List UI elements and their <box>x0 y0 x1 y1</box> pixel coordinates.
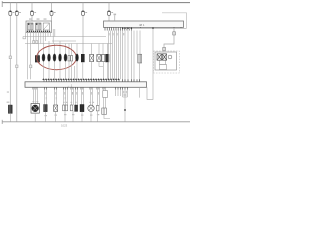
fuse F1 <box>9 3 15 16</box>
relay box pins <box>27 31 50 32</box>
connector P6 <box>102 108 107 114</box>
wire stub x139 below ECU B <box>139 87 141 97</box>
sensor S4 <box>102 55 105 62</box>
harness ECU B to bottom components <box>34 90 106 109</box>
relay K3 <box>43 23 49 30</box>
connector C1 (left) <box>7 102 13 114</box>
ignition coil N2 <box>48 54 51 62</box>
wire code labels on ECU A harness <box>109 33 125 35</box>
wire F4 to relay box <box>51 15 53 21</box>
ignition coil N3 <box>53 54 56 62</box>
fuse F4 <box>50 3 56 16</box>
connector P2 <box>71 56 73 62</box>
inline connector on left sensor wire <box>30 65 32 68</box>
sensor S1 (dark) <box>81 54 84 62</box>
ECU A pin stub label <box>114 14 117 21</box>
connector P5 <box>96 106 99 111</box>
extra wire code labels lower <box>7 92 66 100</box>
sensor S5 (dark) <box>106 54 109 62</box>
ECU B top pins <box>44 79 140 82</box>
wire relay box right pin a <box>52 29 54 44</box>
idle actuator (circle) <box>168 55 172 59</box>
wire relay box right pin b <box>54 29 56 37</box>
throttle motor M1 (X symbol) <box>157 54 162 60</box>
wires relay pins to buses <box>28 33 51 80</box>
wire M2 to ground bus <box>34 113 36 122</box>
inline connector on throttle wire upper <box>173 32 176 35</box>
inline connector on F2 wire <box>16 65 18 68</box>
top supply bus line <box>2 2 190 4</box>
inline connector on throttle wire lower <box>163 47 166 50</box>
bus wire y43 <box>25 43 112 45</box>
inline connector on relay wire b <box>36 41 38 44</box>
wire drops to coil row <box>44 41 108 56</box>
relay module under ECU B <box>103 91 108 98</box>
ignition coil N6 <box>76 54 79 62</box>
sensor S8 (dark) <box>80 105 84 112</box>
ECU B (injection control unit) <box>25 82 147 88</box>
left border bottom tick <box>1 120 3 124</box>
wire F1 to connector C1 <box>9 15 11 105</box>
left border tick <box>1 1 3 7</box>
ground drop right <box>116 90 128 122</box>
lambda sensor S2 <box>90 55 94 62</box>
bus wire y36 <box>23 36 106 38</box>
ignition coil N1 <box>42 54 45 62</box>
bus wire y41 <box>52 40 76 42</box>
svg-text:1023: 1023 <box>61 124 68 128</box>
ignition coil N5 <box>64 54 67 62</box>
inline connector on relay wire a <box>33 41 35 44</box>
right return wire <box>122 27 187 29</box>
fuse F5 <box>82 3 88 16</box>
wire S6 to ECU B <box>139 63 141 82</box>
sensor S7 <box>54 105 58 111</box>
inner sub-module <box>160 60 167 69</box>
relay K1 <box>28 23 33 30</box>
junction dots on return wire <box>122 28 154 30</box>
top-right feed wire <box>162 13 187 28</box>
ECU A bottom pins <box>105 27 181 30</box>
wire F3 to relay box <box>31 15 33 21</box>
svg-text:→ 1: → 1 <box>67 83 73 87</box>
wire F5 to sensor row <box>82 15 84 54</box>
relay box K <box>26 18 52 32</box>
fuse F6 <box>108 3 114 16</box>
ECU B bottom pins <box>33 87 127 89</box>
component id labels bottom row <box>45 114 100 116</box>
wire C1 to ground bus <box>9 113 11 121</box>
pin number specks above bottom row <box>33 101 95 103</box>
sensor S6 (striped) <box>138 54 142 63</box>
fuel pump M2 <box>31 104 39 114</box>
wire relay pin 1 down-left <box>23 33 26 39</box>
lambda sensor S3 <box>97 55 101 62</box>
wire F6 to ECU A <box>108 15 110 21</box>
ground bus line <box>2 121 190 123</box>
wires coil row to junction bus <box>44 61 108 79</box>
connector P1 <box>68 56 70 62</box>
highlight ellipse (red) <box>37 45 77 69</box>
wire code labels below ECU B <box>45 91 127 96</box>
sensor S0 (dark) <box>35 56 39 63</box>
wire F2 to ground bus <box>16 15 18 121</box>
relay K2 <box>36 23 41 30</box>
wire loop right of ECU B <box>147 28 153 99</box>
ECU A harness wires down <box>109 31 141 82</box>
throttle assembly M (outer dashed housing) <box>154 51 180 73</box>
inline connector on F1 wire <box>9 56 11 59</box>
throttle position sensor (X symbol) <box>162 54 166 60</box>
connector pair P4 <box>70 105 77 111</box>
ignition coil N4 <box>59 54 62 62</box>
connector pair P3 <box>63 105 68 111</box>
junction bus above ECU B <box>42 78 120 80</box>
junction dots <box>43 79 119 80</box>
alternator G <box>88 105 94 111</box>
fuse F3 <box>31 3 37 16</box>
svg-text:48 1: 48 1 <box>139 23 145 27</box>
fuse F2 <box>15 3 21 16</box>
connector C2 <box>44 105 48 112</box>
wire to throttle assembly (with jog) <box>164 28 174 51</box>
ECU A (top control unit) <box>104 21 184 27</box>
